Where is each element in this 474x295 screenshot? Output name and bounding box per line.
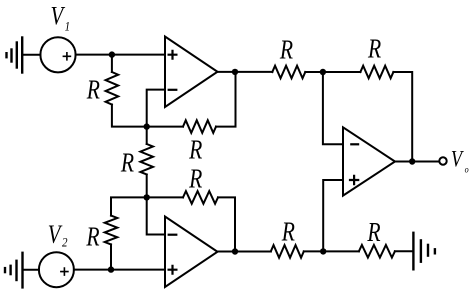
resistor R (V2 side, vertical) xyxy=(105,216,118,245)
svg-text:R: R xyxy=(188,135,202,165)
node F: U2 output junction xyxy=(232,248,238,254)
resistor R (V1 side, vertical) xyxy=(106,72,119,105)
node I: U3 noninverting node xyxy=(320,248,326,254)
wire: feedback resistor to U1 output xyxy=(216,72,236,127)
node C: U1 output junction xyxy=(232,69,238,75)
output terminal (open circle) xyxy=(439,157,446,164)
resistor R (U2 feedback) xyxy=(183,191,218,204)
svg-text:R: R xyxy=(188,164,202,194)
wire: ground to V2 xyxy=(23,269,39,271)
wire: U2 output to node I xyxy=(218,251,271,253)
svg-text:R: R xyxy=(279,35,293,65)
node D: junction top rail of U2 xyxy=(144,194,150,200)
svg-text:V: V xyxy=(48,221,63,250)
wire: U1 output to node G xyxy=(218,71,273,73)
op-amp U1 xyxy=(165,37,218,108)
resistor R (node I to ground) xyxy=(359,245,395,258)
svg-text:R: R xyxy=(86,222,100,252)
wire: node D right to U2 feedback resistor xyxy=(147,196,183,198)
svg-text:R: R xyxy=(120,148,134,178)
node G: U3 inverting summing node xyxy=(320,69,326,75)
svg-text:V: V xyxy=(451,146,464,173)
resistor R (U3 feedback) xyxy=(360,66,393,79)
svg-text:R: R xyxy=(86,75,100,105)
wire: node I up to U3 + input xyxy=(323,180,343,251)
wire: U3 output to output terminal xyxy=(395,161,438,163)
ground (right, at grounding resistor) xyxy=(413,233,435,269)
node E: junction V2 / R xyxy=(108,266,114,272)
wire: resistor to node I and on to grounding resistor xyxy=(304,250,359,252)
svg-text:2: 2 xyxy=(62,234,68,249)
wire: node B up to U1 - input xyxy=(147,90,165,127)
op-amp U3 xyxy=(343,127,395,195)
wire: feedback resistor down to U3 output node xyxy=(393,72,412,162)
wire: resistor to ground xyxy=(395,250,413,252)
resistor R (U1 feedback) xyxy=(183,120,216,133)
svg-text:R: R xyxy=(281,217,295,247)
ground (at source V2) xyxy=(5,253,23,288)
wire: V2 to op-amp U2 + input xyxy=(74,269,165,271)
op-amp U2 xyxy=(165,217,218,288)
wire: node B to middle resistor xyxy=(146,127,148,144)
node B: junction bottom rail / U1 inverting branch xyxy=(144,123,150,129)
node H: U3 output junction xyxy=(409,158,415,164)
wire: V1 to op-amp U1 + input xyxy=(76,54,165,56)
wire: feedback resistor down to U2 output xyxy=(218,197,235,251)
node A: junction V1 / R xyxy=(109,51,115,57)
wire: resistor to node E xyxy=(110,244,112,269)
voltage source V2 xyxy=(39,252,74,287)
wire: resistor to node G and on to feedback resistor xyxy=(305,71,360,73)
resistor R (U1 output to summing node) xyxy=(272,66,305,79)
wire: node D left and down to V2-side resistor xyxy=(111,197,147,215)
wire: node A down to resistor xyxy=(111,55,113,72)
wire: resistor to bottom rail of U1 xyxy=(112,105,183,127)
wire: node D down to U2 - input xyxy=(147,197,165,234)
svg-text:R: R xyxy=(367,218,381,248)
wire: ground to V1 xyxy=(23,54,40,56)
voltage source V1 xyxy=(40,37,75,72)
ground (at source V1) xyxy=(7,38,23,73)
resistor R (U2 output to node I) xyxy=(271,245,304,258)
svg-text:o: o xyxy=(465,164,470,175)
svg-text:R: R xyxy=(367,34,381,64)
svg-text:1: 1 xyxy=(65,19,71,34)
wire: middle resistor to node D xyxy=(146,175,148,198)
resistor R (middle, between node B and node D) xyxy=(140,144,153,174)
wire: node G down to U3 - input xyxy=(323,72,343,144)
svg-text:V: V xyxy=(51,3,66,32)
